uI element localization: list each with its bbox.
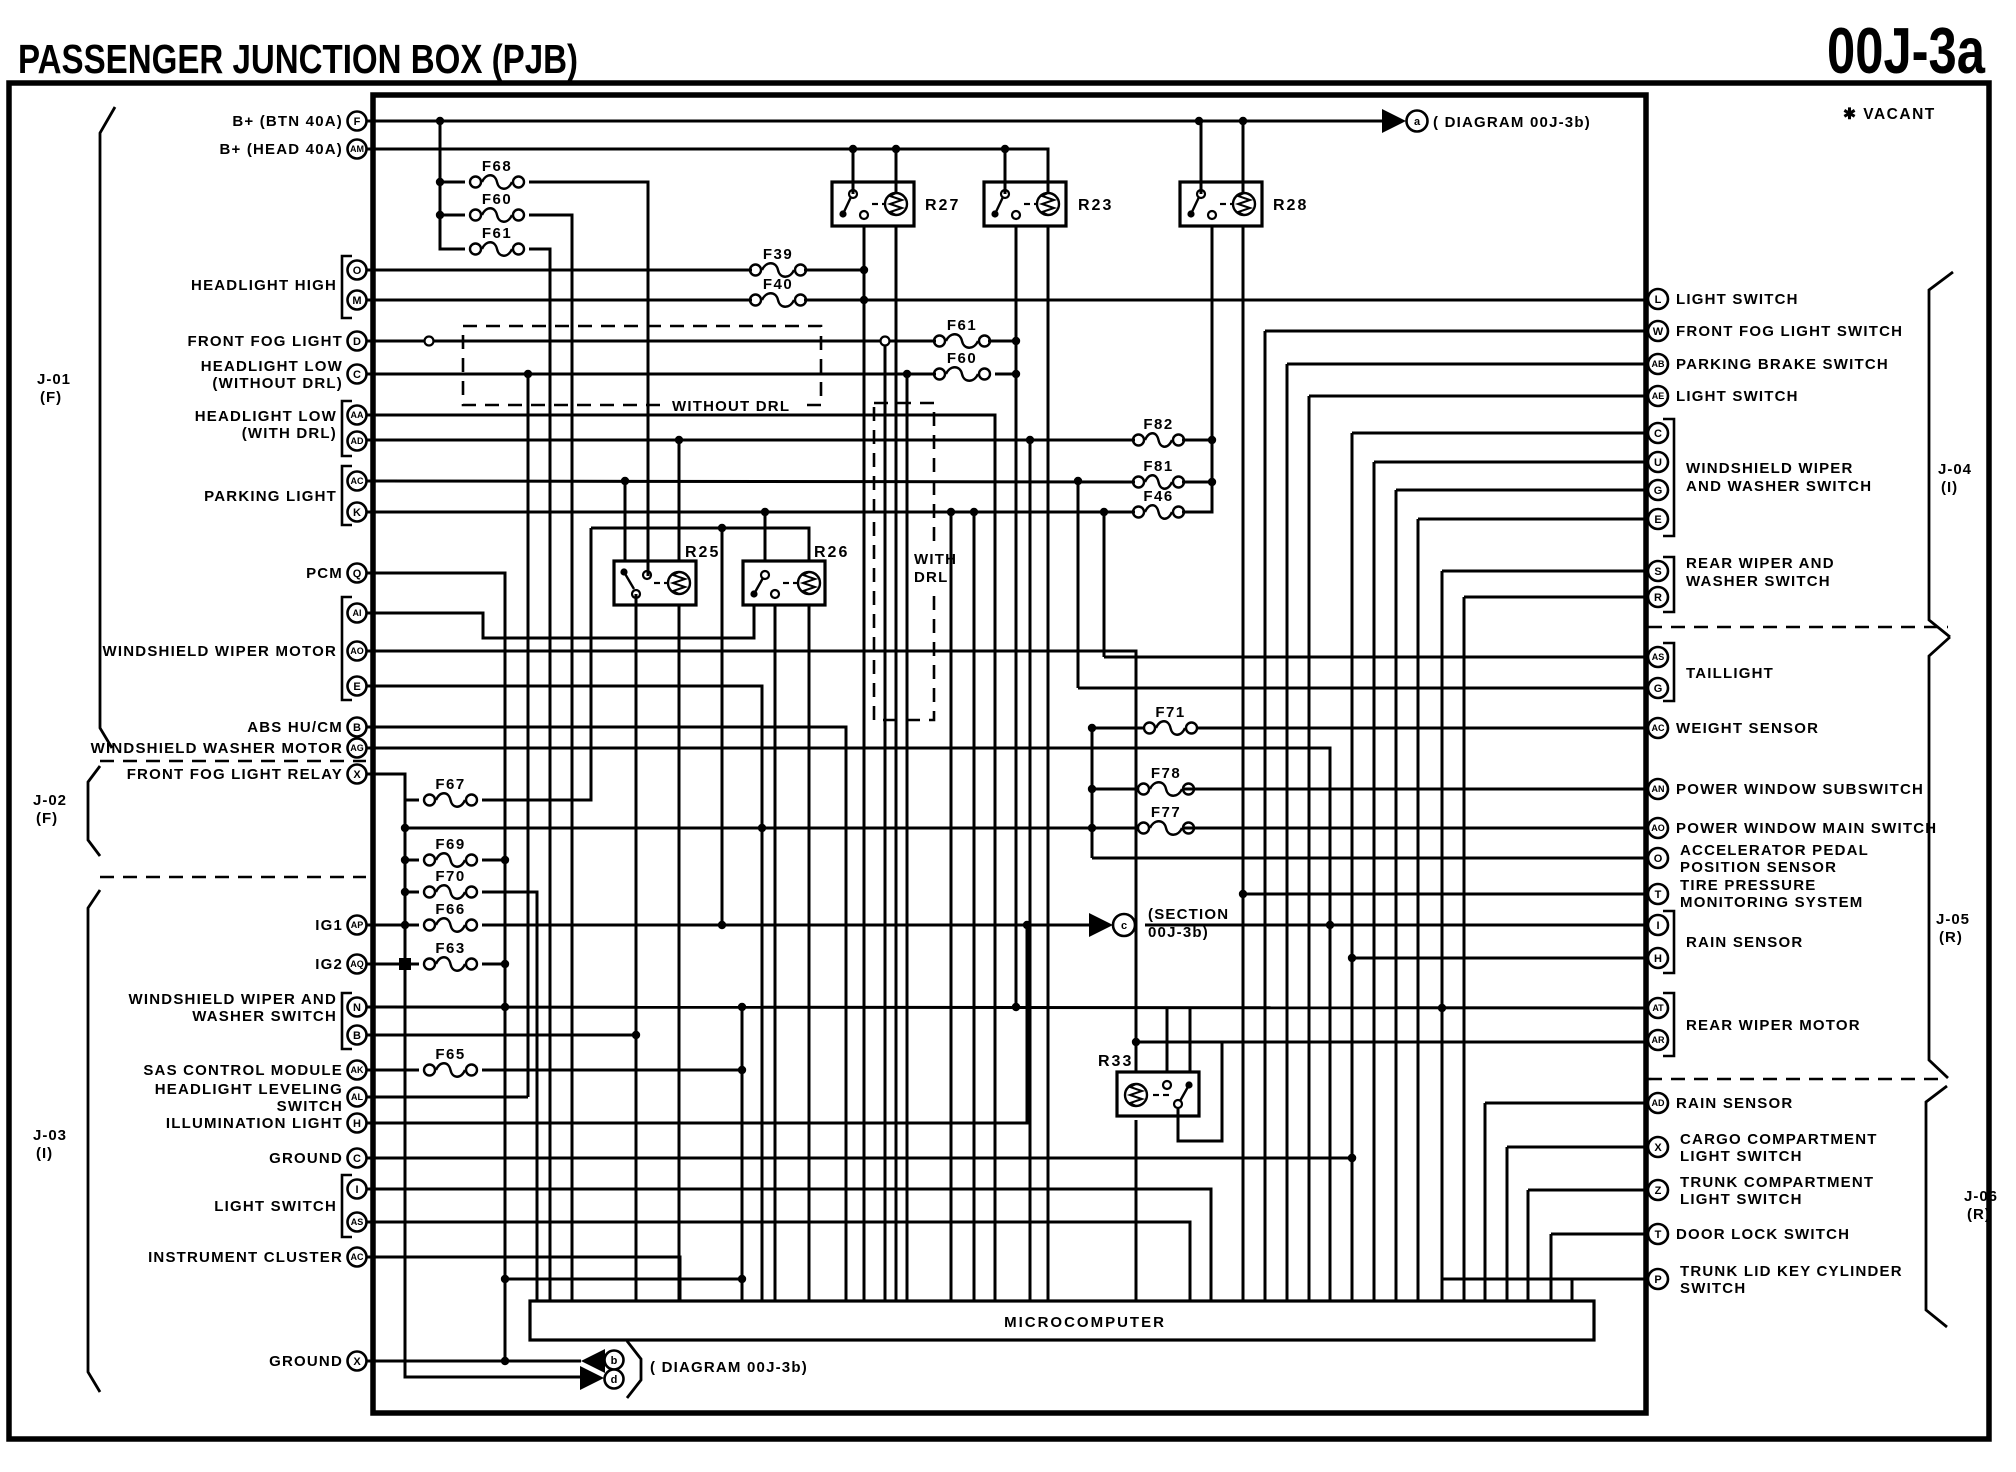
svg-text:AC: AC [351, 1252, 364, 1262]
svg-text:Q: Q [353, 568, 362, 580]
svg-text:AK: AK [351, 1065, 364, 1075]
svg-text:ILLUMINATION LIGHT: ILLUMINATION LIGHT [166, 1115, 343, 1132]
svg-text:O: O [1654, 853, 1663, 865]
svg-text:R26: R26 [814, 544, 849, 561]
svg-text:AI: AI [353, 608, 362, 618]
svg-text:AD: AD [351, 436, 364, 446]
svg-text:HEADLIGHT HIGH: HEADLIGHT HIGH [191, 277, 337, 294]
svg-text:O: O [353, 265, 362, 277]
svg-text:P: P [1654, 1274, 1661, 1286]
svg-text:HEADLIGHT LOW: HEADLIGHT LOW [195, 408, 337, 425]
svg-text:00J-3a: 00J-3a [1827, 14, 1986, 87]
svg-text:I: I [355, 1184, 358, 1196]
svg-text:(WITH DRL): (WITH DRL) [242, 425, 337, 442]
svg-text:R25: R25 [685, 544, 720, 561]
svg-text:CARGO COMPARTMENT: CARGO COMPARTMENT [1680, 1131, 1878, 1148]
svg-text:LIGHT SWITCH: LIGHT SWITCH [1680, 1148, 1803, 1165]
svg-text:G: G [1654, 485, 1663, 497]
svg-text:(R): (R) [1967, 1206, 1991, 1223]
svg-text:U: U [1654, 457, 1662, 469]
svg-text:K: K [353, 507, 361, 519]
svg-text:WINDSHIELD WIPER: WINDSHIELD WIPER [1686, 460, 1854, 477]
svg-text:AC: AC [351, 476, 364, 486]
svg-text:b: b [611, 1355, 618, 1367]
svg-text:(F): (F) [40, 389, 62, 406]
svg-text:POWER WINDOW MAIN SWITCH: POWER WINDOW MAIN SWITCH [1676, 820, 1937, 837]
svg-text:WASHER SWITCH: WASHER SWITCH [192, 1008, 337, 1025]
svg-text:AC: AC [1652, 723, 1665, 733]
svg-text:FRONT FOG LIGHT SWITCH: FRONT FOG LIGHT SWITCH [1676, 323, 1903, 340]
svg-text:R28: R28 [1273, 197, 1308, 214]
svg-text:LIGHT SWITCH: LIGHT SWITCH [1680, 1191, 1803, 1208]
svg-text:AO: AO [350, 646, 364, 656]
svg-text:T: T [1655, 889, 1662, 901]
svg-text:F40: F40 [763, 276, 793, 293]
svg-text:PCM: PCM [306, 565, 343, 582]
svg-text:(F): (F) [36, 810, 58, 827]
svg-text:SAS CONTROL MODULE: SAS CONTROL MODULE [143, 1062, 343, 1079]
svg-text:F78: F78 [1151, 765, 1181, 782]
svg-text:FRONT FOG LIGHT: FRONT FOG LIGHT [188, 333, 343, 350]
svg-text:J-05: J-05 [1936, 911, 1970, 928]
svg-text:R27: R27 [925, 197, 960, 214]
svg-text:IG1: IG1 [315, 917, 343, 934]
svg-text:J-03: J-03 [33, 1127, 67, 1144]
svg-text:GROUND: GROUND [269, 1353, 343, 1370]
svg-text:G: G [1654, 683, 1663, 695]
svg-text:TAILLIGHT: TAILLIGHT [1686, 665, 1774, 682]
svg-text:R23: R23 [1078, 197, 1113, 214]
svg-text:LIGHT SWITCH: LIGHT SWITCH [214, 1198, 337, 1215]
svg-text:00J-3b): 00J-3b) [1148, 924, 1209, 941]
svg-text:B: B [353, 722, 361, 734]
svg-text:a: a [1414, 116, 1421, 128]
svg-text:F77: F77 [1151, 804, 1181, 821]
svg-text:X: X [353, 1356, 361, 1368]
svg-text:M: M [352, 295, 361, 307]
svg-text:R33: R33 [1098, 1053, 1133, 1070]
svg-text:F66: F66 [435, 901, 465, 918]
svg-text:AL: AL [351, 1092, 363, 1102]
svg-text:X: X [353, 769, 361, 781]
svg-text:AM: AM [350, 144, 364, 154]
svg-text:LIGHT SWITCH: LIGHT SWITCH [1676, 388, 1799, 405]
svg-text:d: d [611, 1374, 618, 1386]
svg-text:J-06: J-06 [1964, 1188, 1998, 1205]
svg-text:DRL: DRL [914, 569, 948, 586]
svg-text:L: L [1655, 294, 1662, 306]
svg-text:TIRE PRESSURE: TIRE PRESSURE [1680, 877, 1816, 894]
svg-text:I: I [1656, 920, 1659, 932]
svg-text:DOOR LOCK SWITCH: DOOR LOCK SWITCH [1676, 1226, 1850, 1243]
svg-text:PASSENGER JUNCTION BOX (PJB): PASSENGER JUNCTION BOX (PJB) [18, 36, 578, 82]
svg-text:PARKING BRAKE SWITCH: PARKING BRAKE SWITCH [1676, 356, 1889, 373]
svg-text:B+ (BTN 40A): B+ (BTN 40A) [232, 113, 343, 130]
svg-text:WINDSHIELD WIPER MOTOR: WINDSHIELD WIPER MOTOR [103, 643, 337, 660]
svg-text:HEADLIGHT LOW: HEADLIGHT LOW [201, 358, 343, 375]
svg-text:AS: AS [1652, 652, 1665, 662]
svg-text:WINDSHIELD WIPER AND: WINDSHIELD WIPER AND [129, 991, 337, 1008]
svg-text:S: S [1654, 566, 1661, 578]
svg-text:SWITCH: SWITCH [277, 1098, 343, 1115]
svg-text:✱ VACANT: ✱ VACANT [1843, 106, 1936, 123]
svg-text:AO: AO [1651, 823, 1665, 833]
svg-text:AND WASHER SWITCH: AND WASHER SWITCH [1686, 478, 1872, 495]
svg-text:WASHER SWITCH: WASHER SWITCH [1686, 573, 1831, 590]
svg-text:(I): (I) [36, 1145, 53, 1162]
svg-text:B: B [353, 1030, 361, 1042]
svg-text:J-01: J-01 [37, 371, 71, 388]
svg-text:WINDSHIELD WASHER MOTOR: WINDSHIELD WASHER MOTOR [91, 740, 343, 757]
svg-text:LIGHT SWITCH: LIGHT SWITCH [1676, 291, 1799, 308]
svg-text:INSTRUMENT CLUSTER: INSTRUMENT CLUSTER [148, 1249, 343, 1266]
svg-text:C: C [353, 1153, 361, 1165]
svg-text:F71: F71 [1155, 704, 1185, 721]
svg-text:AT: AT [1652, 1003, 1664, 1013]
svg-text:Z: Z [1655, 1185, 1662, 1197]
svg-text:FRONT FOG LIGHT RELAY: FRONT FOG LIGHT RELAY [127, 766, 343, 783]
svg-text:ABS HU/CM: ABS HU/CM [247, 719, 343, 736]
svg-text:AN: AN [1652, 784, 1665, 794]
svg-text:(SECTION: (SECTION [1148, 906, 1229, 923]
svg-text:REAR WIPER AND: REAR WIPER AND [1686, 555, 1835, 572]
svg-text:F61: F61 [947, 317, 977, 334]
svg-text:WEIGHT SENSOR: WEIGHT SENSOR [1676, 720, 1819, 737]
svg-text:REAR WIPER MOTOR: REAR WIPER MOTOR [1686, 1017, 1861, 1034]
svg-text:H: H [353, 1118, 361, 1130]
svg-text:F70: F70 [435, 868, 465, 885]
svg-text:(I): (I) [1941, 479, 1958, 496]
svg-text:PARKING LIGHT: PARKING LIGHT [204, 488, 337, 505]
svg-text:H: H [1654, 953, 1662, 965]
svg-text:C: C [353, 369, 361, 381]
svg-text:TRUNK LID KEY CYLINDER: TRUNK LID KEY CYLINDER [1680, 1263, 1903, 1280]
svg-text:R: R [1654, 592, 1662, 604]
svg-text:POWER WINDOW SUBSWITCH: POWER WINDOW SUBSWITCH [1676, 781, 1924, 798]
svg-text:ACCELERATOR PEDAL: ACCELERATOR PEDAL [1680, 842, 1869, 859]
svg-text:AG: AG [350, 743, 364, 753]
svg-text:AE: AE [1652, 391, 1665, 401]
svg-text:AD: AD [1652, 1098, 1665, 1108]
svg-text:AR: AR [1652, 1035, 1665, 1045]
svg-text:W: W [1653, 326, 1664, 338]
svg-text:AB: AB [1652, 359, 1665, 369]
svg-text:F46: F46 [1143, 488, 1173, 505]
svg-text:SWITCH: SWITCH [1680, 1280, 1746, 1297]
svg-text:c: c [1121, 920, 1127, 932]
svg-text:F61: F61 [482, 225, 512, 242]
svg-text:MONITORING SYSTEM: MONITORING SYSTEM [1680, 894, 1863, 911]
svg-text:HEADLIGHT LEVELING: HEADLIGHT LEVELING [155, 1081, 343, 1098]
svg-text:N: N [353, 1002, 361, 1014]
svg-text:F68: F68 [482, 158, 512, 175]
svg-text:F39: F39 [763, 246, 793, 263]
svg-text:TRUNK COMPARTMENT: TRUNK COMPARTMENT [1680, 1174, 1874, 1191]
svg-text:F65: F65 [435, 1046, 465, 1063]
svg-text:AP: AP [351, 920, 364, 930]
svg-text:F60: F60 [947, 350, 977, 367]
svg-text:X: X [1654, 1142, 1662, 1154]
svg-text:RAIN SENSOR: RAIN SENSOR [1676, 1095, 1793, 1112]
svg-text:IG2: IG2 [315, 956, 343, 973]
svg-text:F60: F60 [482, 191, 512, 208]
svg-text:E: E [353, 681, 360, 693]
svg-text:(WITHOUT DRL): (WITHOUT DRL) [212, 375, 343, 392]
svg-text:AS: AS [351, 1217, 364, 1227]
svg-text:J-04: J-04 [1938, 461, 1972, 478]
svg-text:B+ (HEAD 40A): B+ (HEAD 40A) [219, 141, 343, 158]
svg-text:( DIAGRAM 00J-3b): ( DIAGRAM 00J-3b) [650, 1359, 808, 1376]
svg-text:C: C [1654, 428, 1662, 440]
svg-text:GROUND: GROUND [269, 1150, 343, 1167]
svg-text:F: F [354, 116, 361, 128]
svg-text:T: T [1655, 1229, 1662, 1241]
svg-text:AQ: AQ [350, 959, 364, 969]
svg-text:F82: F82 [1143, 416, 1173, 433]
svg-text:E: E [1654, 514, 1661, 526]
svg-text:RAIN SENSOR: RAIN SENSOR [1686, 934, 1803, 951]
svg-text:F81: F81 [1143, 458, 1173, 475]
svg-text:AA: AA [351, 410, 364, 420]
svg-text:J-02: J-02 [33, 792, 67, 809]
svg-text:F67: F67 [435, 776, 465, 793]
svg-text:( DIAGRAM 00J-3b): ( DIAGRAM 00J-3b) [1433, 114, 1591, 131]
svg-text:D: D [353, 336, 361, 348]
svg-text:POSITION SENSOR: POSITION SENSOR [1680, 859, 1837, 876]
svg-text:F63: F63 [435, 940, 465, 957]
svg-text:(R): (R) [1939, 929, 1963, 946]
svg-text:MICROCOMPUTER: MICROCOMPUTER [1004, 1314, 1166, 1331]
svg-text:F69: F69 [435, 836, 465, 853]
svg-text:WITHOUT DRL: WITHOUT DRL [672, 398, 790, 415]
